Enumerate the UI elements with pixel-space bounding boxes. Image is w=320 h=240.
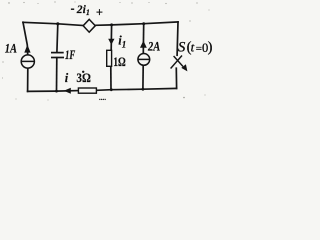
switch S arrowhead — [181, 64, 187, 71]
wire switch branch lower stub — [175, 68, 177, 88]
capacitor C1 top plate — [51, 52, 64, 54]
current source 1A direction arrow — [24, 45, 30, 53]
wire top rail right segment — [95, 22, 178, 25]
capacitor C1 bottom plate — [51, 57, 64, 59]
wire below 1A source to bottom rail — [27, 69, 29, 92]
junction node top 1ohm — [110, 23, 113, 26]
current source I1 1A circle — [21, 55, 34, 68]
label S(t=0) — [178, 39, 213, 55]
svg-text:1Ω: 1Ω — [113, 55, 126, 69]
current arrow i on bottom rail — [64, 88, 71, 94]
scan speckles — [2, 1, 210, 100]
svg-text:1A: 1A — [5, 41, 17, 55]
wire switch branch upper stub — [176, 22, 179, 55]
junction node top capacitor — [56, 22, 59, 25]
speckle dot above 3ohm — [82, 71, 84, 73]
wire capacitor branch lower — [56, 58, 58, 91]
wire 1ohm branch lower — [110, 67, 112, 90]
resistor R1 3ohm box — [78, 88, 96, 93]
switch S blade (down-right diagonal with arrowhead) — [174, 56, 183, 67]
svg-text:2A: 2A — [147, 39, 160, 53]
svg-text:+: + — [96, 6, 103, 20]
svg-text:t: t — [191, 40, 195, 55]
svg-text:....: .... — [99, 94, 106, 102]
label minus sign of dependent source — [71, 8, 74, 10]
junction node bottom 1ohm — [110, 88, 113, 91]
wire 1ohm branch upper (i1 arrow shaft) — [110, 25, 112, 50]
wire capacitor branch upper — [56, 24, 59, 52]
wire bottom rail left of 3ohm resistor — [28, 90, 78, 93]
paper background — [0, 0, 216, 103]
junction node bottom capacitor — [55, 90, 58, 93]
wire top rail left segment — [23, 22, 83, 25]
current source 1A bar — [21, 60, 35, 62]
current source 2A bar — [138, 58, 150, 60]
junction node top 2A — [142, 22, 145, 25]
wire left branch vertical — [23, 22, 28, 54]
svg-text:1F: 1F — [65, 48, 76, 62]
current source 2A direction arrow — [140, 41, 147, 48]
dependent source U1 diamond (-2i1) — [83, 19, 95, 32]
svg-text:S: S — [178, 40, 186, 56]
svg-text:): ) — [208, 39, 213, 55]
resistor R2 1ohm box — [107, 50, 112, 66]
wire 2A branch lower — [142, 66, 144, 89]
wire 2A branch upper — [142, 24, 144, 53]
current source I2 2A circle — [138, 54, 150, 66]
switch S crossing diagonal — [171, 56, 182, 69]
current arrow i1 — [108, 39, 114, 45]
wire bottom rail right of 3ohm resistor — [97, 88, 177, 90]
svg-text:i: i — [65, 71, 69, 85]
junction node bottom 2A — [142, 88, 145, 91]
